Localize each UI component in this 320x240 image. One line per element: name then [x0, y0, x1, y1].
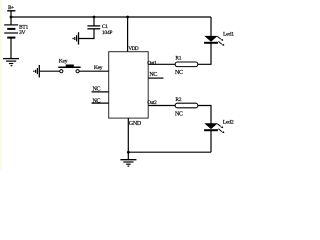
junction at C1 / top rail [93, 16, 96, 19]
wire key left to ground [39, 70, 59, 72]
wire top rail [11, 16, 211, 18]
wire B+ to battery top [10, 11, 12, 25]
wire C1 bottom to ground [79, 29, 94, 39]
wire R1 to Led1 [198, 43, 211, 64]
svg-text:NC: NC [175, 111, 183, 117]
wire battery minus to ground [10, 38, 12, 59]
ground (C1, sideways) [73, 32, 78, 44]
battery BT1 [4, 25, 18, 38]
svg-text:NC: NC [93, 98, 101, 104]
wire junction to ground [127, 152, 129, 160]
ground (bottom) [120, 160, 136, 166]
wire bottom rail [128, 151, 211, 153]
svg-text:104P: 104P [102, 30, 113, 36]
svg-text:Out1: Out1 [147, 60, 157, 66]
wire R2 to Led2 [198, 106, 211, 124]
wire key right to IC pin Key [79, 70, 109, 72]
svg-text:NC: NC [93, 87, 101, 93]
wire Led1 anode from top rail [210, 17, 212, 36]
ground (Key, sideways) [34, 65, 39, 77]
svg-text:NC: NC [149, 72, 157, 78]
pin NC left 2 [92, 98, 109, 104]
junction at battery / top rail [10, 16, 13, 19]
svg-text:3V: 3V [19, 30, 26, 36]
pushbutton Key [58, 65, 80, 73]
resistor R2 [175, 103, 198, 108]
wire Out2 to R2 [148, 105, 176, 107]
svg-text:C1: C1 [102, 24, 108, 30]
wire VDD [127, 17, 129, 52]
svg-text:R2: R2 [175, 97, 181, 103]
wire Out1 to R1 [148, 63, 176, 65]
ground (battery) [3, 59, 19, 66]
wire Led2 cathode to bottom rail [210, 130, 212, 152]
pin NC right [148, 72, 163, 78]
svg-text:VDD: VDD [128, 46, 138, 52]
svg-text:Led2: Led2 [223, 119, 234, 125]
LED Led2 [204, 123, 224, 133]
wire C1 top [93, 17, 95, 26]
svg-text:GND: GND [129, 121, 142, 127]
power port B+ [7, 5, 15, 11]
pin NC left 1 [92, 87, 109, 93]
svg-text:NC: NC [175, 70, 183, 76]
junction at VDD / top rail [126, 16, 129, 19]
svg-text:Led1: Led1 [223, 31, 234, 37]
junction at GND / bottom rail [127, 151, 130, 154]
wire GND pin to bottom rail [127, 118, 129, 152]
svg-text:Key: Key [59, 59, 68, 65]
LED Led1 [204, 36, 224, 46]
svg-text:R1: R1 [175, 55, 181, 61]
IC U1 body [109, 52, 149, 118]
capacitor C1 [87, 26, 100, 29]
svg-text:Key: Key [94, 65, 103, 71]
resistor R1 [175, 62, 198, 67]
